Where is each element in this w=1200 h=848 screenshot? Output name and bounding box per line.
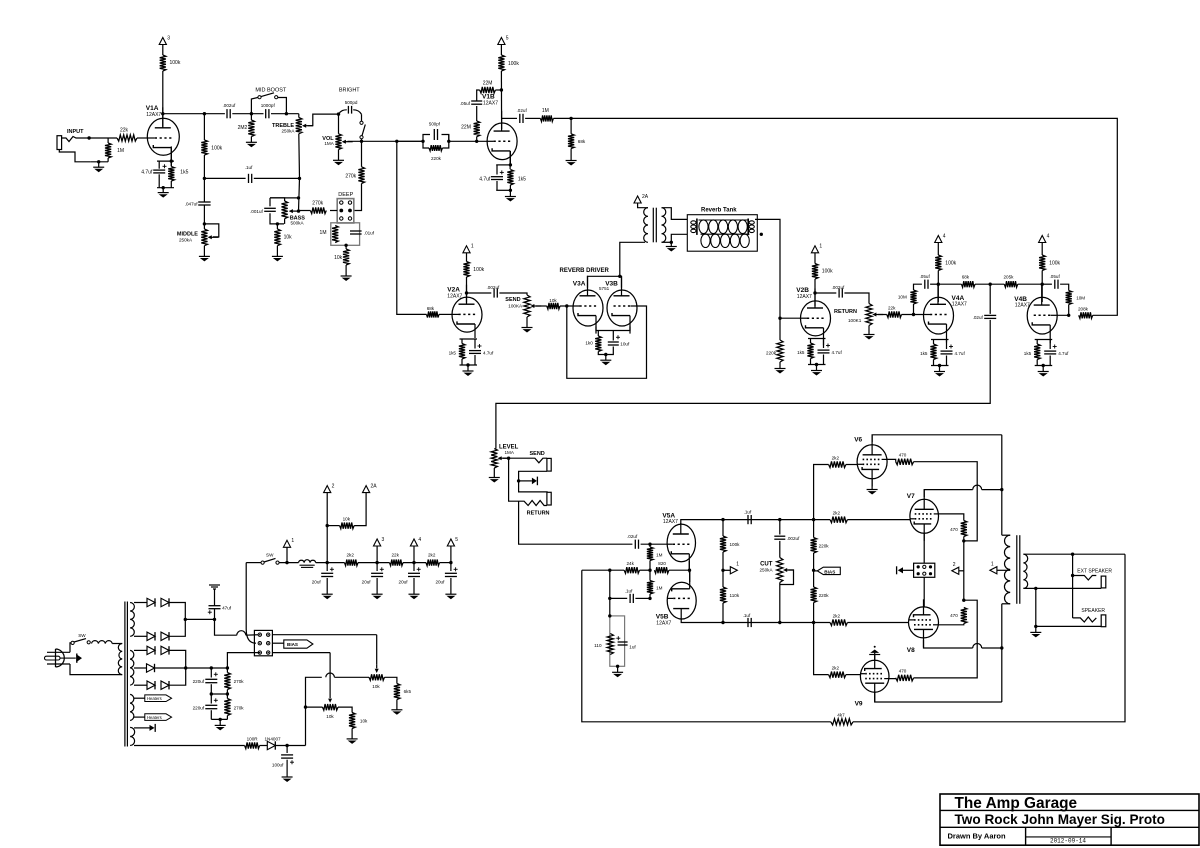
wire V4B cap lead	[1049, 340, 1051, 350]
wire pot1 rail b	[334, 676, 369, 678]
junction bass wiper node	[297, 209, 300, 212]
svg-text:1: 1	[736, 561, 739, 567]
wire pot1 right	[385, 677, 397, 683]
label 100k V1B	[508, 61, 519, 67]
output transformer secondary	[1023, 554, 1027, 588]
svg-text:500kA: 500kA	[291, 221, 305, 226]
junction V1B cath	[509, 163, 512, 166]
wire sw to node1	[279, 562, 298, 564]
wire PI supply node	[722, 552, 724, 587]
label SEND jack	[530, 451, 545, 457]
label 220k leak	[766, 351, 777, 356]
jack RETURN	[509, 458, 552, 505]
wire .1uf row	[204, 177, 245, 179]
label 20uf C	[399, 579, 409, 584]
wire V3B cathode	[614, 327, 631, 331]
potentiometer VOL 1MA	[335, 134, 352, 150]
ground V2A cathode	[463, 365, 474, 376]
label 22M horiz	[483, 80, 493, 86]
wire V6 screen	[887, 459, 896, 461]
wire pot2 right	[338, 707, 352, 712]
svg-text:1k5: 1k5	[449, 351, 457, 356]
junction bass top	[297, 196, 300, 199]
triode V3A	[573, 276, 603, 334]
svg-text:2k2: 2k2	[428, 552, 436, 557]
wire rev net bottom	[598, 347, 613, 355]
title Drawn By Aaron	[948, 831, 1006, 840]
triode V1A	[147, 107, 179, 166]
label 2k2 rail a	[347, 552, 355, 557]
label V2B 12AX7	[797, 294, 812, 300]
svg-text:270k: 270k	[345, 173, 356, 179]
wire send wiper	[536, 305, 547, 307]
wire plate tap	[501, 117, 517, 119]
label 10k bass	[284, 234, 293, 240]
junction bass bottom	[276, 222, 279, 225]
junction screen bot	[962, 599, 965, 602]
label SW standby	[266, 552, 274, 557]
wire V4A cap bot	[946, 356, 948, 366]
wire 270k to bass node	[299, 210, 311, 212]
wire treble bottom	[298, 134, 301, 179]
svg-text:470: 470	[950, 613, 958, 618]
resistor 110k PI	[720, 587, 726, 603]
resistor 2k2 V6	[829, 461, 846, 467]
label V4B 12AX7	[1015, 302, 1030, 308]
wire V2B res bot	[810, 359, 812, 365]
wire HV to cap	[185, 618, 214, 620]
svg-text:.002uf: .002uf	[487, 285, 500, 290]
wire plate to 68k	[938, 283, 961, 285]
label RETURN	[834, 309, 857, 315]
svg-text:3: 3	[167, 35, 170, 41]
wire standby riser	[245, 563, 247, 629]
triode V4A	[924, 284, 954, 343]
input jack J1	[57, 136, 90, 162]
svg-text:470: 470	[899, 453, 907, 458]
junction 68k node	[569, 117, 572, 120]
svg-text:Drawn By Aaron: Drawn By Aaron	[948, 831, 1006, 840]
wire rail c	[440, 562, 451, 564]
wire hop V8 over screen	[973, 644, 982, 649]
label 205k mix	[1004, 275, 1015, 280]
capacitor .1uf V5B grid	[630, 594, 633, 603]
resistor 1M PI b	[647, 581, 653, 595]
wire V4B res lead	[1036, 340, 1038, 345]
wire 1M b ends	[649, 570, 651, 580]
capacitor 20uf B	[371, 567, 384, 576]
svg-text:.1uf: .1uf	[743, 613, 751, 618]
power node 2 screens	[952, 562, 959, 575]
wire .002 lead	[779, 520, 781, 535]
reverb transformer primary	[644, 208, 648, 243]
label 110 tail	[594, 643, 602, 648]
wire nfb right	[853, 554, 1125, 722]
wire V2B rail bot	[808, 364, 826, 366]
wire 2k2 to V9	[846, 674, 861, 676]
label 1M out	[542, 108, 549, 114]
wire 22M to plate	[495, 89, 501, 91]
resistor 1k5 V1A	[168, 167, 174, 182]
wire OT bot in	[1002, 603, 1010, 605]
label .02uf V1B	[517, 108, 528, 113]
label 47uf	[222, 606, 232, 611]
title block divider 1	[1025, 827, 1027, 845]
wire V8 plate b	[982, 647, 1002, 649]
svg-text:4k7: 4k7	[837, 713, 845, 718]
reverb transformer secondary	[662, 208, 666, 243]
svg-text:22M: 22M	[483, 80, 493, 86]
resistor 2k2 V9	[829, 672, 846, 678]
svg-text:12AX7: 12AX7	[1015, 302, 1030, 308]
wire pot1 wiper up	[376, 635, 378, 665]
resistor 270k bass-deep	[310, 207, 326, 213]
wire vol node to V2A	[397, 141, 427, 314]
svg-text:.047uf: .047uf	[185, 201, 198, 206]
label .002uf cut	[787, 536, 800, 541]
wire plug bottom	[70, 664, 122, 675]
svg-text:V9: V9	[855, 700, 863, 707]
wiper arrow pot2	[328, 695, 332, 703]
ground input	[93, 162, 104, 172]
fuse mains	[92, 641, 113, 644]
label V5A 12AX7	[663, 519, 678, 525]
label .05uf fb	[460, 101, 471, 106]
wire sec bottom	[662, 241, 672, 243]
svg-text:220k: 220k	[819, 593, 830, 598]
label 1M deep	[320, 230, 327, 236]
wire screen rail	[963, 537, 965, 601]
wire v1b cap lead	[496, 165, 498, 175]
wire V7 plate b	[982, 489, 1002, 491]
svg-text:250kA: 250kA	[760, 567, 774, 572]
ground V2B cathode	[811, 365, 822, 376]
wire 1M bottom	[107, 158, 109, 162]
junction tank output	[760, 233, 763, 236]
label SEND	[505, 297, 520, 303]
diode D3	[147, 632, 155, 640]
svg-text:.05uf: .05uf	[460, 101, 471, 106]
wire V9 screen	[889, 677, 896, 680]
wire standby feed	[246, 562, 261, 564]
label 500pf	[429, 122, 441, 127]
capacitor .05uf V4B	[1055, 280, 1058, 289]
junction V4B grid	[1067, 314, 1070, 317]
ground V4B cathode	[1038, 366, 1049, 377]
svg-text:2: 2	[953, 562, 956, 568]
svg-text:.002uf: .002uf	[787, 536, 800, 541]
power node 1 V2B	[811, 244, 822, 253]
potentiometer 10k bias b	[323, 704, 339, 710]
label SEND 100KA	[508, 303, 523, 308]
capacitor 20uf A	[321, 567, 334, 576]
wire rc to V1B grid	[449, 140, 487, 142]
svg-text:2k2: 2k2	[833, 510, 841, 515]
wire vol wiper row	[348, 140, 424, 142]
svg-text:1N4007: 1N4007	[265, 736, 282, 741]
wire bass 10k	[276, 224, 278, 229]
wire to power 1 V2B	[814, 253, 816, 264]
label 10k bias gnd	[360, 718, 368, 723]
capacitor 100uf	[281, 755, 294, 764]
label 208k	[1078, 306, 1089, 311]
capacitor 4.7uf V1A	[153, 164, 166, 173]
resistor 100k V2A	[463, 262, 469, 278]
label V1A	[146, 105, 159, 112]
svg-text:22k: 22k	[888, 306, 896, 311]
wire res branch bottom	[170, 181, 172, 188]
svg-text:205k: 205k	[1004, 275, 1015, 280]
wire cap to midboost	[232, 113, 263, 115]
power node 5	[498, 35, 509, 44]
svg-text:2k2: 2k2	[833, 613, 841, 618]
wire plate to .05 V4B	[1042, 283, 1052, 285]
wire 220k chain top	[813, 520, 815, 538]
resistor 2k2 rail b	[426, 560, 440, 566]
svg-text:100k: 100k	[170, 60, 181, 66]
resistor 1M input	[105, 143, 111, 158]
jack switch bracket	[519, 471, 548, 492]
svg-text:220uf: 220uf	[193, 705, 205, 710]
diode 1N4007	[267, 741, 275, 749]
wire 270k deep top	[361, 141, 363, 167]
wire cut bottom	[779, 583, 781, 623]
wire 10M to cap V4A	[914, 284, 922, 290]
socket power octal	[254, 630, 272, 655]
label 470 V9	[899, 669, 907, 674]
potentiometer RETURN 100K1	[866, 304, 883, 326]
ground speaker	[1030, 626, 1041, 637]
svg-text:10k: 10k	[372, 684, 380, 689]
resistor 470 V7	[961, 521, 967, 537]
capacitor .002uf V2A	[494, 288, 497, 297]
capacitor .002uf cut	[774, 536, 785, 539]
wire OT bot vertical	[1001, 604, 1003, 702]
wire cap to send	[499, 293, 527, 295]
svg-text:SEND: SEND	[505, 297, 520, 303]
wire cap to V5A grid	[641, 543, 668, 545]
label 2k2 V9	[832, 665, 840, 670]
svg-text:220k: 220k	[819, 543, 830, 548]
wire bias top join	[169, 650, 186, 685]
label 270k a	[234, 679, 245, 684]
triode V2A	[452, 285, 482, 338]
junction plates join	[618, 275, 621, 278]
label 68k V2A	[427, 306, 435, 311]
label .02uf PI	[627, 534, 638, 539]
pentode V7	[910, 490, 939, 541]
label DEEP	[338, 192, 353, 198]
wire 10k stub	[327, 525, 339, 527]
svg-text:470: 470	[899, 669, 907, 674]
junction div mid b	[226, 692, 229, 695]
wire 20uf bot C	[413, 578, 415, 594]
svg-text:DEEP: DEEP	[338, 192, 353, 198]
wire deep to 10k	[345, 245, 347, 249]
wire V2A plate up	[466, 277, 468, 302]
junction V4B plate	[1041, 283, 1044, 286]
ground RETURN	[864, 326, 875, 340]
label 100k V2B	[822, 269, 833, 275]
label 4.7uf V4A	[955, 351, 966, 356]
junction .002 top	[778, 518, 781, 521]
triode V5A	[667, 523, 695, 573]
wire 20uf lead C	[413, 563, 415, 571]
title block date line	[1026, 836, 1112, 838]
junction node5	[449, 561, 452, 564]
title block line 1	[940, 809, 1199, 811]
resistor 1k5 V4A	[930, 344, 936, 360]
wire V4B res bot	[1036, 360, 1038, 366]
label 4.7uf V1A	[141, 170, 153, 176]
svg-text:100k: 100k	[508, 61, 519, 67]
svg-text:1k0: 1k0	[585, 341, 593, 346]
wire .05 to 10M V4B	[1060, 284, 1069, 290]
resistor 1k5 V2A	[459, 344, 465, 360]
wire hop B+	[237, 631, 246, 636]
flag Heaters 2	[134, 714, 172, 721]
svg-text:V6: V6	[854, 436, 862, 443]
jack SPEAKER	[1073, 615, 1106, 627]
svg-text:10k: 10k	[326, 714, 334, 719]
wire plug top	[70, 643, 71, 652]
wire mix down a	[989, 284, 991, 314]
wire V4A res lead	[933, 340, 935, 345]
triode V1B	[487, 111, 517, 169]
junction bias cap	[285, 744, 288, 747]
capacitor 4.7uf V2B	[818, 344, 831, 353]
ground deep 10k	[341, 265, 352, 281]
svg-text:250kA: 250kA	[179, 237, 193, 242]
wire V6 plate	[872, 435, 1002, 442]
junction deep bottom	[344, 244, 347, 247]
label 1M a	[656, 552, 663, 557]
junction V5A grid	[648, 543, 651, 546]
svg-text:100uf: 100uf	[272, 762, 284, 767]
wire V3A cathode	[596, 327, 614, 331]
wire to power 4 V4A	[937, 243, 939, 256]
svg-text:2k2: 2k2	[347, 552, 355, 557]
reverb tank box	[687, 215, 757, 252]
label 24k	[627, 561, 635, 566]
wire 10M to grid V4B	[1057, 305, 1069, 316]
wire socket to pot1	[272, 634, 376, 636]
wire nfb vertical	[582, 570, 831, 722]
ground bass 10k	[272, 246, 283, 262]
capacitor 500pd BRIGHT	[339, 106, 362, 114]
wire aux bot tap	[134, 745, 245, 747]
label 22M vert	[461, 125, 471, 131]
power node 3	[159, 35, 170, 44]
junction div mid a	[210, 692, 213, 695]
junction rc right	[447, 140, 450, 143]
junction .1uf row right	[298, 177, 301, 180]
junction rev cath bot	[604, 353, 607, 356]
label V3A	[573, 280, 586, 287]
svg-text:12AX7: 12AX7	[797, 294, 812, 300]
wire res branch top	[170, 161, 172, 166]
label V1A 12AX7	[146, 112, 161, 118]
label .05uf V4B	[1050, 274, 1061, 279]
junction V5B grid	[648, 597, 651, 600]
label 22k rail	[392, 552, 400, 557]
label V6	[854, 436, 862, 443]
capacitor 20uf D	[445, 567, 458, 576]
capacitor .02uf V1B out	[520, 114, 523, 123]
reverb tank springs top	[699, 220, 748, 234]
svg-text:5: 5	[455, 537, 458, 543]
junction tail top	[608, 569, 611, 572]
wire cut wiper loop	[780, 570, 794, 585]
label 10M V4A	[898, 294, 907, 299]
resistor 110 tail	[607, 634, 613, 655]
label .1uf	[245, 165, 253, 170]
chassis arrow socket	[897, 566, 914, 574]
resistor 1k0 reverb	[595, 336, 601, 352]
svg-text:2: 2	[332, 483, 335, 489]
svg-text:1M: 1M	[656, 552, 663, 557]
label 6k5	[404, 689, 412, 694]
ground MIDDLE	[199, 246, 210, 262]
label 22k	[120, 127, 129, 133]
label 100k PI	[730, 542, 741, 547]
pentode V9	[860, 653, 889, 702]
resistor 1k5 V2B	[807, 343, 813, 359]
svg-text:REVERB DRIVER: REVERB DRIVER	[560, 268, 610, 274]
label 1k5 V4A	[920, 351, 928, 356]
svg-text:2A: 2A	[371, 483, 378, 489]
wire 20uf lead D	[450, 563, 452, 571]
wire rail a	[358, 562, 390, 564]
resistor 100k V4B	[1039, 255, 1045, 271]
wire V4A res bot	[933, 360, 935, 366]
wire to power 1 V2A	[466, 253, 468, 262]
wire v1b cath rail bot	[496, 189, 510, 191]
capacitor .001uf	[264, 208, 276, 211]
wire V9 grid rail	[814, 623, 829, 675]
wire to treble	[271, 113, 299, 115]
svg-text:INPUT: INPUT	[67, 129, 84, 135]
svg-text:5: 5	[506, 35, 509, 41]
resistor 2k2 rail a	[345, 560, 359, 566]
svg-text:1k5: 1k5	[1024, 351, 1032, 356]
svg-text:10k: 10k	[343, 516, 351, 521]
wire node4 up	[413, 546, 415, 563]
title Two Rock John Mayer Sig. Proto	[955, 812, 1165, 827]
wire tail down a	[609, 570, 611, 616]
wire V8 screen	[939, 624, 964, 625]
wire grid route	[567, 306, 647, 378]
label .1uf lower	[743, 613, 751, 618]
capacitor 20uf C	[408, 567, 421, 576]
wire plates up	[620, 242, 645, 276]
wire V2B cath rail top	[808, 338, 826, 340]
wire B+ to socket	[246, 634, 260, 637]
label LEVEL 1MA	[505, 450, 515, 455]
wire 270k to deep switch	[354, 184, 362, 211]
wire 20uf lead B	[376, 563, 378, 571]
svg-text:10k: 10k	[334, 255, 343, 261]
jack SEND	[509, 458, 552, 471]
ground V1B cathode	[505, 190, 516, 201]
label VOL	[322, 136, 334, 142]
label RETURN jack	[527, 510, 550, 516]
svg-text:68k: 68k	[427, 306, 435, 311]
wire 270k a bot	[226, 690, 228, 695]
svg-text:.01uf: .01uf	[364, 230, 375, 235]
potentiometer SEND 100KA	[524, 295, 541, 317]
PT core	[125, 602, 128, 747]
